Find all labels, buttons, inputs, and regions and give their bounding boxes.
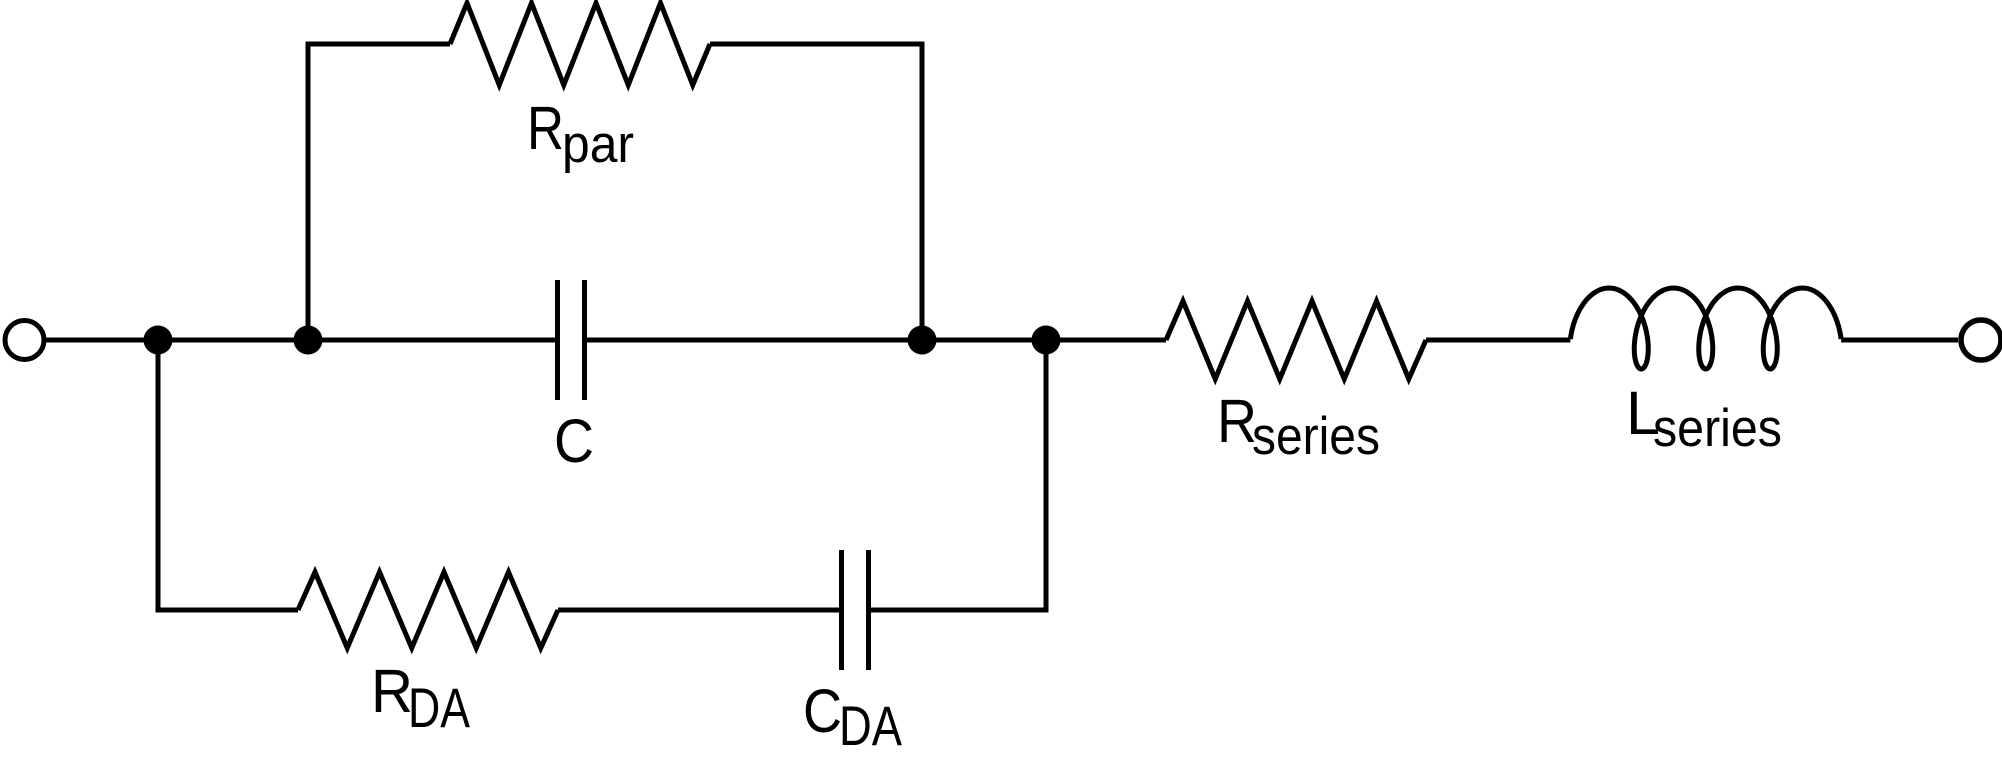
node 1 (junction dot, to C_DA branch) [144,326,173,355]
svg-text:par: par [562,115,634,174]
wire: top branch down to node 3 [920,42,925,341]
svg-text:R: R [371,657,413,726]
wire: node 1 down to bottom branch [156,340,161,613]
right terminal [1961,320,2001,360]
resistor R_par [450,3,710,85]
wire: node 2 up to top branch [306,42,311,341]
wire: capacitor C_DA to node 4 riser [871,608,1049,613]
svg-text:DA: DA [408,676,471,739]
capacitor C_DA right plate [866,550,871,670]
wire: left terminal to node 1 [45,338,159,343]
inductor L_series [1570,288,1841,369]
wire: node 2 to capacitor C [308,338,555,343]
wire: node 1 to node 2 [158,338,308,343]
resistor R_series [1166,301,1426,379]
wire: R_series to L_series [1426,338,1570,343]
wire: bottom branch left segment [156,608,299,613]
wire: top branch right segment [710,42,925,47]
svg-text:R: R [1217,387,1257,456]
svg-text:DA: DA [839,694,903,757]
wire: capacitor C to node 3 [587,338,922,343]
resistor R_DA [298,572,558,648]
capacitor C left plate [555,280,560,400]
svg-text:series: series [1252,407,1380,466]
svg-text:R: R [527,94,564,163]
node 3 (junction dot, R_par rejoins) [908,326,937,355]
svg-text:C: C [554,407,594,476]
wire: top branch left segment [306,42,451,47]
svg-text:C: C [803,677,842,746]
capacitor C_DA left plate [839,550,844,670]
wire: bottom branch up to node 4 [1044,340,1049,610]
wire: R_DA to capacitor C_DA [558,608,839,613]
node 4 (junction dot, C_DA branch rejoins) [1032,326,1061,355]
svg-text:series: series [1653,399,1782,458]
capacitor C right plate [582,280,587,400]
wire: node 3 to node 4 [922,338,1046,343]
node 2 (junction dot, to R_par branch) [294,326,323,355]
wire: node 4 to R_series [1046,338,1166,343]
wire: L_series to right terminal [1841,338,1958,343]
left terminal [5,321,44,360]
